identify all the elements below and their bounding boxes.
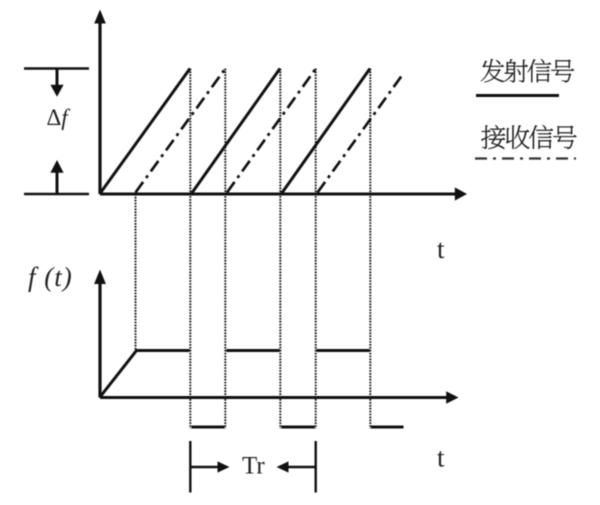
dotted connector at transmit peak 1 (x=190) xyxy=(189,69,191,429)
beat frequency high segment 3 xyxy=(317,349,370,352)
dotted connector at received peak 2 (x=316) xyxy=(315,69,317,429)
x-axis (top frequency plot) xyxy=(100,187,467,200)
legend sample line: solid (transmitted) xyxy=(476,94,559,97)
dotted connector at transmit peak 2 (x=280) xyxy=(279,69,281,429)
delta-f down arrow xyxy=(50,70,63,97)
transmitted sawtooth ramp 3 (solid) xyxy=(282,69,371,194)
svg-text:t: t xyxy=(437,234,445,264)
dotted connector at received peak 1 (x=225) xyxy=(224,69,226,429)
transmitted sawtooth ramp 1 (solid) xyxy=(100,69,190,194)
legend label: transmitted signal (Chinese) xyxy=(481,59,574,83)
svg-text:Tr: Tr xyxy=(242,453,265,480)
received sawtooth ramp 1 (dash-dot) xyxy=(136,69,226,193)
dotted connector at received ramp 1 start (x=135) xyxy=(135,194,137,351)
svg-text:Δf: Δf xyxy=(47,105,72,130)
Tr measurement left tick xyxy=(189,441,191,493)
y-axis (bottom beat-frequency plot) xyxy=(94,270,106,398)
received sawtooth ramp 3 (dash-dot, cut off) xyxy=(318,74,404,193)
legend sample line: dash-dot (received) xyxy=(475,157,576,159)
dotted connector at transmit peak 3 (x=370) xyxy=(369,69,371,429)
y-axis (top frequency plot) xyxy=(94,10,106,195)
svg-text:f (t): f (t) xyxy=(28,262,73,292)
beat frequency waveform: initial ramp and first high segment xyxy=(100,351,190,398)
received sawtooth ramp 2 (dash-dot) xyxy=(227,69,316,193)
beat frequency low segment 3 (below axis) xyxy=(371,426,404,429)
Tr left-pointing arrow xyxy=(277,461,315,472)
beat frequency low segment 2 (below axis) xyxy=(281,426,315,429)
beat frequency high segment 2 xyxy=(226,349,279,352)
Tr measurement right tick xyxy=(315,441,317,493)
legend label: received signal (Chinese) xyxy=(481,125,576,149)
upper reference tick for delta-f xyxy=(24,67,89,70)
lower reference tick for delta-f xyxy=(24,193,89,196)
transmitted sawtooth ramp 2 (solid) xyxy=(192,69,281,194)
beat frequency low segment 1 (below axis) xyxy=(192,426,225,429)
svg-text:t: t xyxy=(437,443,445,473)
delta-f up arrow xyxy=(50,160,63,193)
x-axis (bottom beat-frequency plot) xyxy=(100,391,459,404)
Tr right-pointing arrow xyxy=(192,461,230,472)
